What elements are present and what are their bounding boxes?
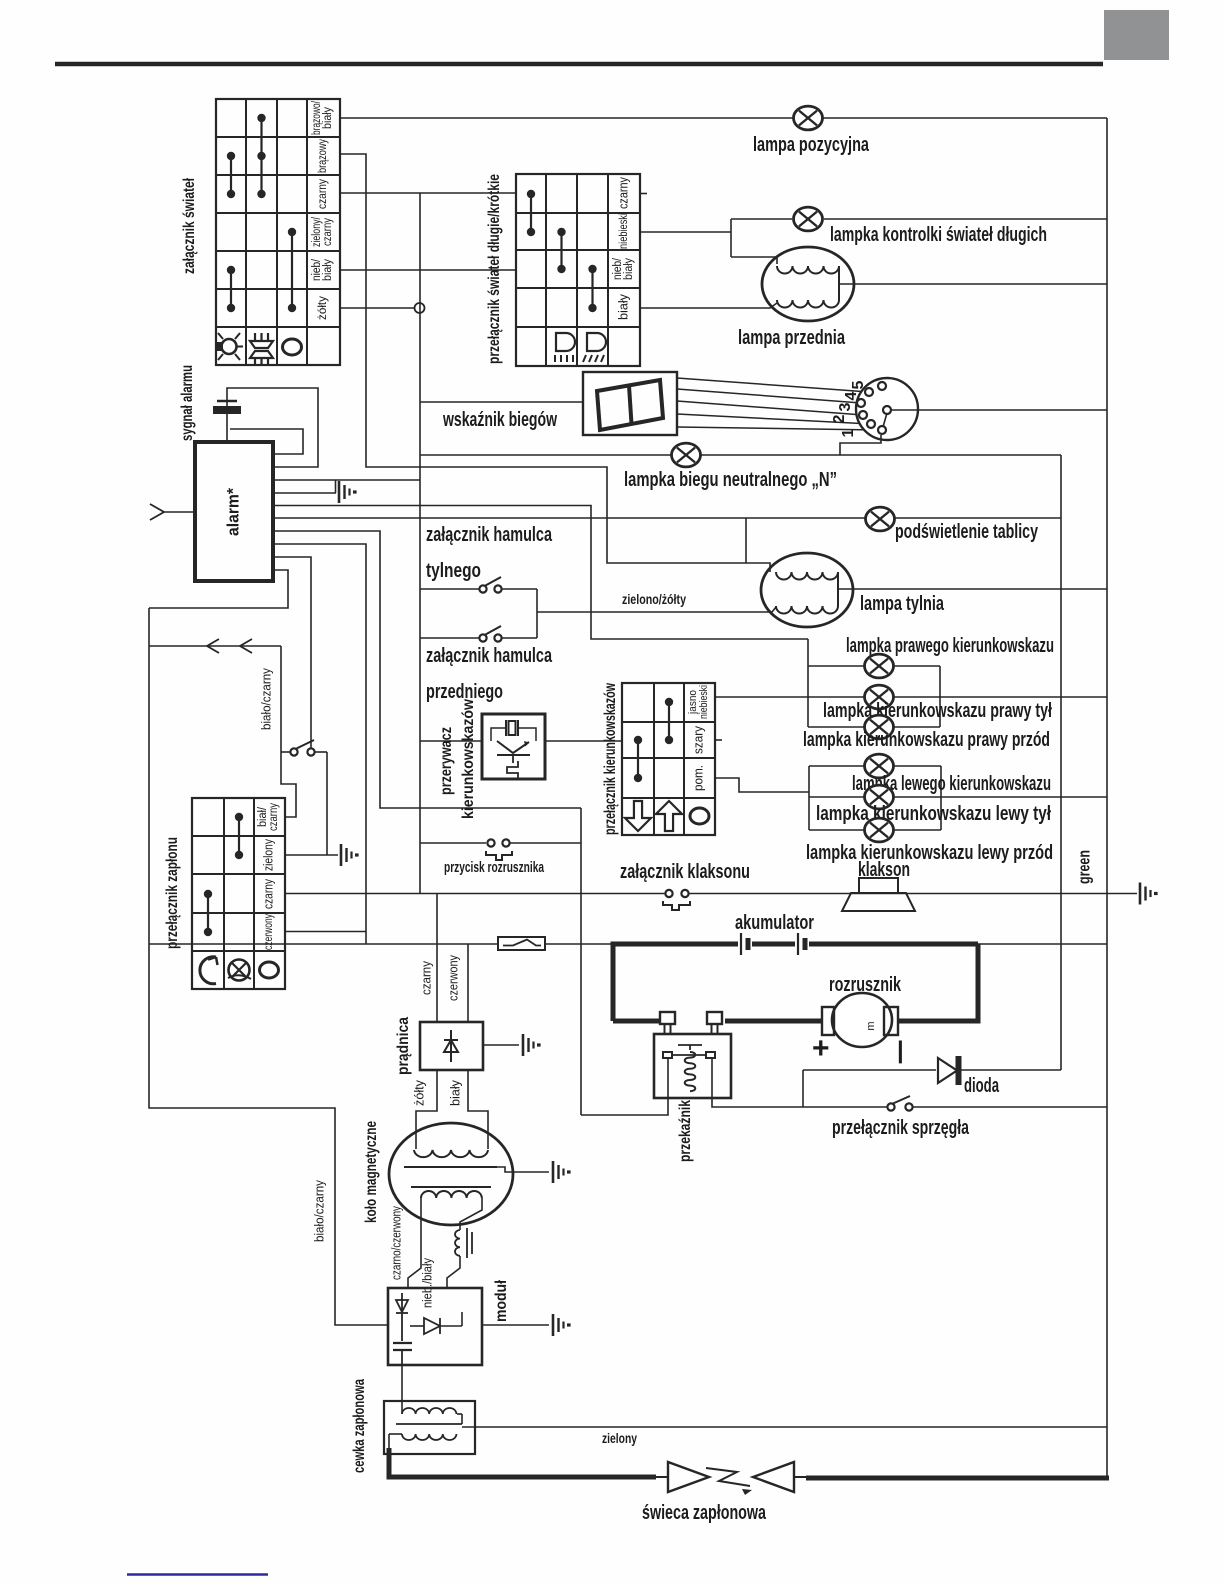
wire żółty bbox=[416, 1070, 437, 1149]
top rule bbox=[55, 62, 1103, 67]
wire czarny to prądnica bbox=[436, 894, 438, 1023]
coil windings bbox=[402, 1408, 456, 1414]
lampa przednia (headlamp) bbox=[762, 247, 854, 321]
przekaźnik (relay) box bbox=[654, 1034, 731, 1098]
wire szary stub bbox=[715, 739, 722, 741]
magneto core bbox=[404, 1166, 497, 1168]
wire niebieski (to control lamp) bbox=[640, 231, 731, 233]
antenna input bbox=[164, 511, 195, 513]
cewka zapłonowa (ignition coil) box bbox=[384, 1401, 475, 1454]
relay terminals bbox=[660, 1012, 675, 1024]
svg-text:przekaźnik: przekaźnik bbox=[677, 1100, 694, 1162]
gear indicator box (wskaźnik biegów) bbox=[583, 372, 677, 435]
svg-text:2: 2 bbox=[831, 414, 848, 423]
wire headlamp to trunk bbox=[839, 283, 1107, 285]
svg-text:przełącznik sprzęgła: przełącznik sprzęgła bbox=[832, 1117, 970, 1139]
svg-text:green: green bbox=[1074, 850, 1093, 884]
green rail x1061 bbox=[1060, 455, 1062, 1070]
svg-text:lampka kierunkowskazu prawy ty: lampka kierunkowskazu prawy tył bbox=[823, 700, 1052, 722]
wire table3 jasno/niebieski to right lamps bbox=[715, 696, 1107, 698]
symbol: headlight bbox=[254, 333, 256, 341]
wire alarm to kill switch bbox=[273, 557, 311, 748]
svg-text:zielony: zielony bbox=[602, 1430, 637, 1446]
svg-text:przełącznik świateł długie/kró: przełącznik świateł długie/krótkie bbox=[486, 174, 503, 364]
wire diode branch bbox=[802, 1070, 804, 1107]
rozrusznik (starter motor) bbox=[832, 993, 892, 1047]
svg-text:biało/czarny: biało/czarny bbox=[311, 1180, 326, 1242]
lampka kierunkowskazu prawy przód bbox=[865, 715, 894, 739]
module internals bbox=[401, 1293, 403, 1341]
ground (ignition) bbox=[340, 844, 343, 866]
svg-text:wskaźnik biegów: wskaźnik biegów bbox=[442, 409, 557, 431]
wire podświetlenie junction bbox=[745, 518, 747, 563]
svg-text:zielono/żółty: zielono/żółty bbox=[622, 591, 686, 607]
lampka biegu neutralnego bbox=[672, 443, 701, 467]
wire zielony bbox=[462, 1426, 1107, 1428]
svg-text:załącznik hamulca: załącznik hamulca bbox=[426, 524, 553, 546]
wire pickup to module bbox=[447, 1256, 460, 1288]
prądnica (generator) box bbox=[420, 1022, 483, 1070]
symbol: arrow down bbox=[625, 801, 651, 831]
svg-text:czarny: czarny bbox=[268, 803, 280, 831]
pickup coil bbox=[460, 1198, 482, 1230]
gear indicator wires to connector bbox=[677, 378, 869, 392]
switch table: przełącznik kierunkowskazów bbox=[622, 683, 715, 835]
svg-text:kierunkowskazów: kierunkowskazów bbox=[460, 699, 477, 819]
node żółty (open) bbox=[415, 303, 425, 313]
symbol: parking lamp bbox=[217, 342, 223, 351]
ground (magneto) bbox=[552, 1161, 555, 1183]
svg-text:lampka kierunkowskazu prawy pr: lampka kierunkowskazu prawy przód bbox=[803, 729, 1050, 751]
svg-text:świeca zapłonowa: świeca zapłonowa bbox=[642, 1502, 767, 1524]
wire spark return (thick) bbox=[806, 1476, 1109, 1481]
lampka kontrolki świateł długich bbox=[794, 207, 823, 231]
wire arrows (biało/czarny) bbox=[149, 645, 281, 647]
svg-text:m: m bbox=[865, 1021, 877, 1030]
wire trunk to gear indicator bbox=[420, 401, 583, 403]
wire brake common bbox=[536, 589, 538, 638]
wire alarm to trunk bbox=[273, 479, 420, 481]
svg-text:załącznik klaksonu: załącznik klaksonu bbox=[620, 861, 750, 883]
wire diode to green rail bbox=[961, 1069, 1061, 1071]
svg-text:lampka kontrolki świateł długi: lampka kontrolki świateł długich bbox=[830, 224, 1047, 246]
prądnica diode symbol bbox=[450, 1030, 452, 1062]
flasher internals bbox=[505, 720, 507, 736]
svg-text:załącznik hamulca: załącznik hamulca bbox=[426, 645, 553, 667]
wire rail x581 bbox=[580, 808, 582, 1115]
svg-text:szary: szary bbox=[690, 726, 705, 754]
symbol: off O bbox=[260, 962, 279, 978]
svg-text:niebieski: niebieski bbox=[616, 213, 630, 249]
svg-text:przerywacz: przerywacz bbox=[438, 727, 455, 795]
svg-text:czarno/czerwony: czarno/czerwony bbox=[388, 1206, 403, 1280]
relay coil bbox=[685, 1052, 696, 1091]
svg-text:załącznik świateł: załącznik świateł bbox=[181, 178, 198, 274]
left rail wire bbox=[149, 608, 388, 1325]
wire biały bbox=[468, 1070, 488, 1149]
svg-text:nieb./biały: nieb./biały bbox=[419, 1258, 434, 1308]
wire biały (to headlamp low filament) bbox=[640, 303, 777, 308]
svg-text:przełącznik kierunkowskazów: przełącznik kierunkowskazów bbox=[602, 683, 619, 835]
svg-text:lampa przednia: lampa przednia bbox=[738, 327, 846, 349]
wire table3 pom to left lamps bbox=[715, 778, 809, 792]
table3 contact bridges bbox=[668, 702, 670, 740]
connector circle bbox=[856, 378, 918, 440]
svg-text:czerwony: czerwony bbox=[445, 955, 460, 1001]
kill switch bbox=[281, 751, 290, 753]
svg-text:+: + bbox=[812, 1032, 830, 1065]
svg-text:przycisk rozrusznika: przycisk rozrusznika bbox=[444, 859, 544, 876]
svg-text:biały: biały bbox=[615, 294, 630, 320]
svg-text:dioda: dioda bbox=[964, 1075, 1000, 1097]
alarm box U1 bbox=[195, 442, 273, 581]
wire control lamp to trunk bbox=[824, 218, 1107, 220]
wire fuse row bbox=[149, 943, 497, 945]
svg-text:lampka kierunkowskazu lewy prz: lampka kierunkowskazu lewy przód bbox=[806, 842, 1053, 864]
przycisk rozrusznika (starter button) bbox=[420, 842, 486, 844]
svg-text:alarm*: alarm* bbox=[223, 488, 242, 536]
lampka prawego kierunkowskazu bbox=[865, 654, 894, 678]
svg-text:przełącznik zapłonu: przełącznik zapłonu bbox=[164, 837, 181, 949]
svg-text:żółty: żółty bbox=[411, 1080, 426, 1106]
wire biał/czarny row to kill switch bbox=[281, 646, 296, 817]
svg-text:czarny: czarny bbox=[322, 218, 334, 246]
wire nieb/biały (table1 to table2) bbox=[340, 269, 516, 271]
left turn lamp box bbox=[808, 766, 810, 830]
switch table: przełącznik świateł długie/krótkie bbox=[516, 174, 640, 366]
lampka lewego kierunkowskazu bbox=[865, 754, 894, 778]
symbol: arrow up bbox=[656, 801, 682, 831]
svg-text:akumulator: akumulator bbox=[735, 912, 814, 934]
wire czarny (table1 to table2) bbox=[340, 192, 516, 194]
świeca zapłonowa (spark plug) bbox=[668, 1462, 709, 1492]
svg-text:cewka zapłonowa: cewka zapłonowa bbox=[351, 1379, 368, 1473]
table2 contact bridges bbox=[530, 194, 532, 232]
svg-text:czarny: czarny bbox=[315, 179, 329, 209]
wire zielony row to ground bbox=[285, 854, 338, 856]
table4 contact bridges bbox=[238, 817, 240, 855]
wire czarny stub bbox=[640, 193, 647, 195]
wire alarm to battery feed bbox=[273, 544, 366, 944]
wire trunk to flasher bbox=[420, 740, 483, 742]
magneto lighting coil bbox=[421, 1191, 482, 1198]
wire buzzer loop bbox=[227, 388, 318, 467]
svg-text:biały: biały bbox=[447, 1080, 462, 1106]
svg-text:podświetlenie tablicy: podświetlenie tablicy bbox=[895, 521, 1039, 543]
lampa pozycyjna bbox=[794, 106, 823, 130]
relay contacts bbox=[663, 1052, 672, 1058]
svg-text:prądnica: prądnica bbox=[395, 1017, 412, 1075]
wire flasher to table3 bbox=[545, 740, 622, 742]
wire HT lead (thick) bbox=[389, 1448, 656, 1477]
symbol: high beam bbox=[556, 333, 566, 351]
lampka podświetlenia tablicy bbox=[866, 507, 895, 531]
lampka kierunkowskazu lewy tył bbox=[865, 785, 894, 809]
wire buzzer to alarm bbox=[226, 414, 228, 442]
wire czerwony to prądnica bbox=[467, 944, 469, 1022]
lampa tylnia (tail lamp) bbox=[761, 553, 853, 627]
svg-text:tylnego: tylnego bbox=[426, 560, 481, 582]
wire czarny / klakson row bbox=[285, 893, 665, 895]
symbol: low beam bbox=[587, 333, 597, 351]
wire prądnica to ground bbox=[483, 1044, 519, 1046]
lampka kierunkowskazu prawy tył bbox=[865, 685, 894, 709]
svg-text:lampa pozycyjna: lampa pozycyjna bbox=[753, 134, 870, 156]
svg-text:sygnał alarmu: sygnał alarmu bbox=[179, 365, 196, 441]
svg-text:niebieski: niebieski bbox=[698, 685, 710, 719]
svg-text:czarny: czarny bbox=[615, 177, 630, 209]
wire brązowo/biały (top, to lampa pozycyjna) bbox=[340, 117, 1107, 119]
svg-text:|: | bbox=[897, 1037, 904, 1064]
alarm buzzer (sygnał alarmu) bbox=[217, 400, 237, 403]
symbol: lamp crossed bbox=[229, 960, 250, 981]
svg-text:czarny: czarny bbox=[418, 961, 433, 995]
załącznik klaksonu switch bbox=[665, 890, 672, 897]
svg-text:koło magnetyczne: koło magnetyczne bbox=[363, 1121, 380, 1223]
wire module to ground bbox=[482, 1324, 549, 1326]
svg-text:4: 4 bbox=[843, 391, 860, 400]
svg-text:zielony: zielony bbox=[261, 838, 275, 871]
svg-text:biały: biały bbox=[322, 107, 334, 129]
wire żółty (to trunk node) bbox=[340, 307, 419, 309]
ground (alarm) bbox=[338, 481, 341, 503]
svg-text:biało/czarny: biało/czarny bbox=[258, 668, 273, 730]
wire connector to neutral wire bbox=[840, 435, 881, 455]
wire alarm bottom to left rail bbox=[149, 570, 288, 608]
ground (prądnica) bbox=[522, 1034, 525, 1056]
ground (module) bbox=[552, 1314, 555, 1336]
wire tail lamp to trunk bbox=[838, 588, 1107, 590]
wire alarm to starter-button rail bbox=[273, 531, 581, 808]
wire czarno/czerwony bbox=[408, 1198, 421, 1288]
rear brake switch bbox=[420, 588, 479, 590]
magneto charge coil bbox=[414, 1150, 488, 1157]
switch table: załącznik świateł bbox=[216, 99, 340, 365]
front brake switch bbox=[420, 637, 479, 639]
main right trunk bbox=[1106, 118, 1108, 1478]
wire brązowy bbox=[340, 154, 770, 572]
svg-text:lampka biegu neutralnego „N”: lampka biegu neutralnego „N” bbox=[624, 469, 837, 491]
footnote rule (blue) bbox=[127, 1573, 268, 1575]
wire neutral lamp run bbox=[420, 454, 1061, 456]
wire magneto to ground bbox=[497, 1167, 549, 1172]
svg-text:czarny: czarny bbox=[261, 878, 275, 909]
fuse F1 bbox=[498, 937, 545, 950]
connector center pin bbox=[883, 413, 887, 427]
wire relay right output / clutch row bbox=[712, 1058, 887, 1107]
page corner gray block bbox=[1104, 10, 1169, 60]
svg-text:biały: biały bbox=[322, 259, 334, 281]
wire alarm to ground bbox=[273, 492, 336, 494]
svg-text:pom.: pom. bbox=[690, 765, 705, 791]
ground (horn circuit) bbox=[1139, 883, 1142, 905]
symbol: off O bbox=[690, 808, 709, 824]
symbol: off O bbox=[283, 339, 302, 355]
symbol: ignition key bbox=[200, 957, 216, 984]
svg-text:3: 3 bbox=[837, 402, 854, 411]
svg-text:5: 5 bbox=[850, 380, 867, 389]
svg-text:lampa tylnia: lampa tylnia bbox=[860, 593, 945, 615]
wire niebieski branch to headlamp bbox=[731, 257, 777, 264]
wire left lamps mid row to trunk bbox=[941, 796, 1107, 798]
wire battery row thin to trunk bbox=[978, 943, 1107, 945]
wire czerwony row bbox=[285, 931, 366, 933]
lampka kierunkowskazu lewy przód bbox=[865, 818, 894, 842]
battery loop (thick) bbox=[613, 944, 738, 1021]
switch table: przełącznik zapłonu bbox=[192, 798, 285, 989]
wire connector to trunk bbox=[891, 409, 1107, 411]
trunk wire x420 bbox=[419, 193, 421, 893]
right turn lamp box bbox=[807, 639, 809, 727]
connector pins bbox=[878, 382, 886, 390]
svg-text:moduł: moduł bbox=[493, 1280, 510, 1322]
table1 contact bridges bbox=[260, 118, 262, 194]
flasher box (przerywacz) bbox=[482, 714, 545, 779]
koło magnetyczne (magneto) bbox=[389, 1123, 513, 1225]
akumulator cells bbox=[740, 933, 742, 955]
moduł (CDI module) box bbox=[388, 1288, 482, 1365]
wire alarm aux loop bbox=[230, 429, 303, 454]
svg-text:żółty: żółty bbox=[315, 296, 329, 320]
wire zielono/żółty bbox=[537, 607, 776, 612]
svg-text:1: 1 bbox=[840, 428, 857, 437]
wire relay left output bbox=[581, 1058, 668, 1115]
wire alarm chain A (y505) bbox=[273, 506, 808, 640]
svg-text:lampka kierunkowskazu lewy tył: lampka kierunkowskazu lewy tył bbox=[816, 803, 1051, 825]
wire kill switch to ground bbox=[326, 752, 328, 855]
dioda (diode) bbox=[803, 1069, 936, 1071]
przełącznik sprzęgła (clutch switch) bbox=[887, 1103, 894, 1110]
wire alarm chain B (y518) bbox=[273, 517, 1061, 519]
svg-text:biały: biały bbox=[623, 258, 635, 280]
svg-text:brązowy: brązowy bbox=[315, 139, 329, 173]
wire module to cewka bbox=[401, 1365, 403, 1414]
